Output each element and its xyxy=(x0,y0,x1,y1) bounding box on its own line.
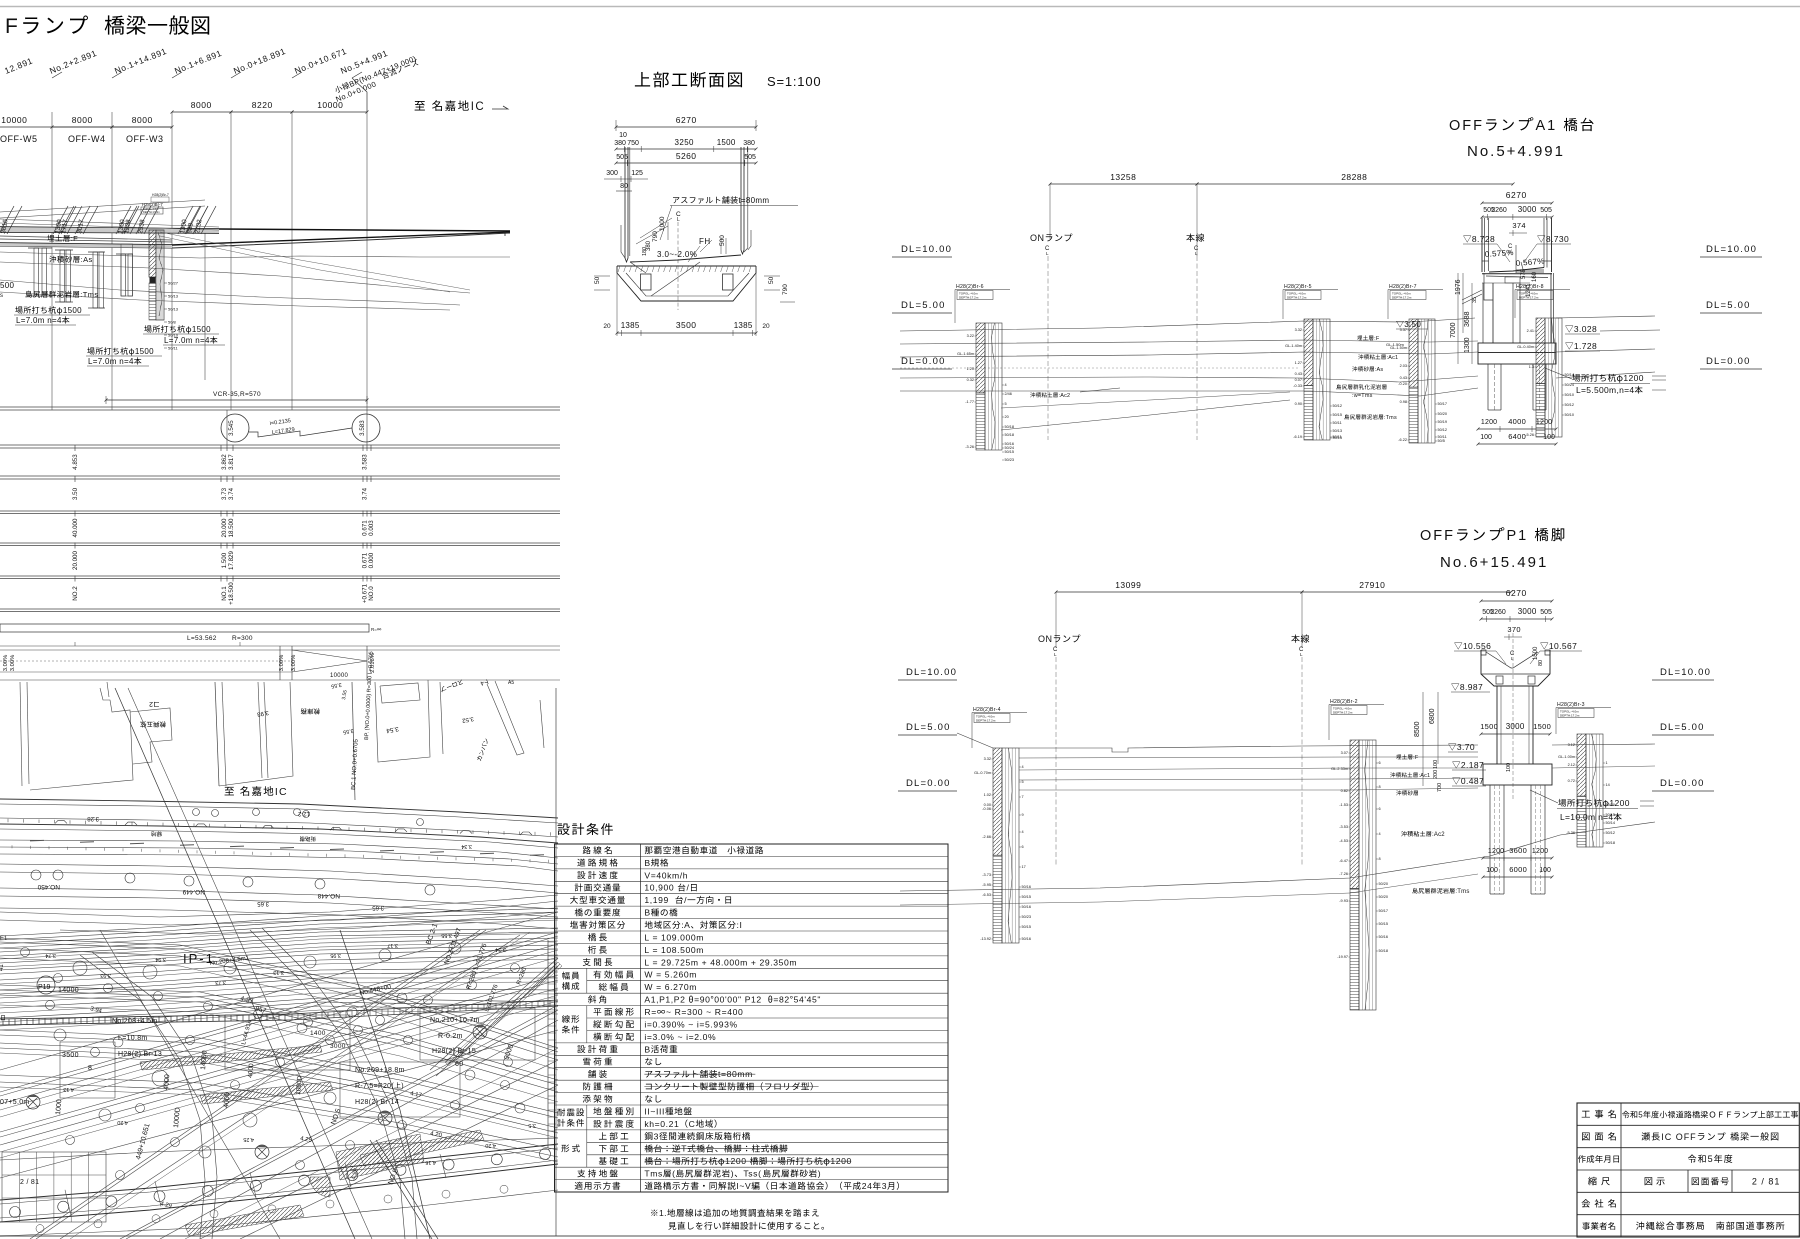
profile elevation circles xyxy=(221,414,249,442)
svg-text:50/15: 50/15 xyxy=(1022,895,1032,899)
svg-text:No.6+15.491: No.6+15.491 xyxy=(1440,554,1548,571)
svg-text:3000: 3000 xyxy=(1506,722,1525,731)
design table group labels xyxy=(562,972,579,980)
svg-text:125: 125 xyxy=(631,170,643,177)
svg-text:50/16: 50/16 xyxy=(1022,937,1032,941)
svg-text:-6.19: -6.19 xyxy=(1293,435,1302,439)
svg-text:50/13: 50/13 xyxy=(168,294,179,299)
svg-text:50/15: 50/15 xyxy=(1022,925,1032,929)
A1 extra strata lines xyxy=(900,340,1478,344)
svg-text:kh=0.21: kh=0.21 xyxy=(644,1119,679,1129)
cross-section web boxes xyxy=(641,274,652,290)
svg-text:1500: 1500 xyxy=(63,306,82,315)
svg-text:200: 200 xyxy=(1433,770,1439,779)
svg-text:370: 370 xyxy=(1507,625,1520,634)
svg-text:20.000: 20.000 xyxy=(72,551,79,570)
elevation soil label fill layer xyxy=(47,235,69,242)
svg-text:2.03: 2.03 xyxy=(1400,364,1407,368)
superelevation band xyxy=(0,645,560,647)
svg-text:DL=0.00: DL=0.00 xyxy=(1660,778,1705,789)
svg-text:80: 80 xyxy=(1538,660,1544,666)
svg-text:3.862: 3.862 xyxy=(221,454,228,470)
design table group sub-divider xyxy=(586,968,588,993)
svg-text:3500: 3500 xyxy=(676,320,697,330)
P1 cap beam xyxy=(1481,650,1486,655)
svg-text:12-2: 12-2 xyxy=(297,810,310,816)
plan circles row 2 xyxy=(31,870,41,880)
svg-text:L = 109.000m: L = 109.000m xyxy=(644,932,704,942)
svg-text:07+5.0m: 07+5.0m xyxy=(0,1099,30,1106)
svg-text:3000: 3000 xyxy=(330,1043,346,1050)
elevation ground lines xyxy=(0,252,510,258)
svg-text:50/20: 50/20 xyxy=(1379,895,1389,899)
svg-text:Tss(: Tss( xyxy=(743,1169,761,1179)
svg-text:50/15: 50/15 xyxy=(1606,813,1616,817)
P1 ground lines xyxy=(957,733,993,748)
svg-text:3.0~-2.0%: 3.0~-2.0% xyxy=(657,250,697,259)
svg-text:Tms: Tms xyxy=(644,1169,663,1179)
design conditions title xyxy=(557,823,612,835)
svg-text:3.817: 3.817 xyxy=(228,454,235,470)
svg-text:3: 3 xyxy=(882,1181,887,1191)
svg-text:10000: 10000 xyxy=(317,100,343,110)
svg-text:-1.53: -1.53 xyxy=(1339,803,1348,807)
svg-text:50/14: 50/14 xyxy=(1565,373,1575,377)
svg-text:50/12: 50/12 xyxy=(1606,831,1616,835)
svg-text:8000: 8000 xyxy=(191,100,212,110)
elevation station labels slanted xyxy=(3,55,34,75)
cross-section diagonal stiffeners xyxy=(651,262,700,296)
svg-text:i=3.0% ~ i=2.0%: i=3.0% ~ i=2.0% xyxy=(644,1032,716,1042)
svg-text:6400: 6400 xyxy=(1508,432,1526,441)
svg-text:A1: A1 xyxy=(1536,118,1558,134)
svg-text:50/17: 50/17 xyxy=(1379,909,1389,913)
elevation station grid lines xyxy=(51,112,53,410)
svg-text:4.20: 4.20 xyxy=(485,1142,496,1148)
svg-text:IC OFF: IC OFF xyxy=(1661,1132,1697,1142)
borehole H28(2)Br-4 sounding curve xyxy=(1008,748,1012,943)
svg-text:H28(2)Br-6: H28(2)Br-6 xyxy=(956,284,984,290)
svg-text:4.20: 4.20 xyxy=(117,1119,128,1125)
elevation dim row right 8000 8220 10000 xyxy=(172,111,231,113)
svg-text:4.853: 4.853 xyxy=(72,454,79,470)
svg-text:505: 505 xyxy=(616,154,628,161)
svg-text:160: 160 xyxy=(1532,271,1538,282)
svg-text:20: 20 xyxy=(762,323,770,330)
P1 ground level marks xyxy=(1448,744,1456,751)
svg-text:P1: P1 xyxy=(1507,528,1529,544)
svg-text:GL-0.70m: GL-0.70m xyxy=(974,771,991,775)
svg-text:DL=10.00: DL=10.00 xyxy=(1706,244,1757,255)
svg-text:575: 575 xyxy=(1521,268,1527,279)
P1 level marks top xyxy=(1454,643,1462,650)
svg-text:2: 2 xyxy=(149,700,153,707)
svg-text:1500: 1500 xyxy=(1533,722,1551,731)
svg-text:-3.53: -3.53 xyxy=(1339,825,1348,829)
svg-text:3.00%: 3.00% xyxy=(3,655,9,671)
svg-text:II~III: II~III xyxy=(644,1106,665,1116)
svg-text::Ac2: :Ac2 xyxy=(1432,832,1445,838)
svg-text:1200: 1200 xyxy=(1623,373,1644,383)
svg-text:IC: IC xyxy=(275,786,288,798)
svg-text::F: :F xyxy=(1374,336,1380,342)
svg-text:8.730: 8.730 xyxy=(1546,234,1569,244)
svg-text:-0.06: -0.06 xyxy=(982,807,991,811)
plan road band guardrail bumps xyxy=(55,820,67,823)
svg-text:1.728: 1.728 xyxy=(1574,341,1597,351)
svg-text:1500: 1500 xyxy=(135,347,154,356)
svg-text:50/15: 50/15 xyxy=(1005,450,1015,454)
svg-text:7: 7 xyxy=(1022,795,1024,799)
svg-text:2.12: 2.12 xyxy=(1568,763,1575,767)
borehole H28(2)Br-4 column xyxy=(993,748,1002,855)
plan extra short connector curves xyxy=(80,955,205,1239)
svg-text:2.187: 2.187 xyxy=(1461,760,1484,770)
svg-text:DEPTH:17.2m: DEPTH:17.2m xyxy=(1392,296,1412,300)
elevation abutment borehole hatched column xyxy=(149,230,156,277)
P1 main-line centerline xyxy=(1291,634,1309,642)
svg-text:3.545: 3.545 xyxy=(228,420,235,436)
svg-text:1.20: 1.20 xyxy=(967,367,974,371)
plan bottom band cross streets xyxy=(65,1190,71,1216)
svg-text::Ac1: :Ac1 xyxy=(1419,773,1431,779)
svg-text:17.829: 17.829 xyxy=(228,551,235,570)
A1 bearing and abutment xyxy=(1486,276,1548,278)
svg-text:1000: 1000 xyxy=(55,1099,63,1115)
svg-text:GL-1.40m: GL-1.40m xyxy=(1285,344,1302,348)
svg-text::Tms: :Tms xyxy=(80,290,98,299)
plan railroad hatched band xyxy=(0,1014,290,1019)
svg-text:8220: 8220 xyxy=(252,100,273,110)
svg-text:OFF-W4: OFF-W4 xyxy=(68,134,106,144)
P1 extra strata lines xyxy=(1019,757,1478,758)
svg-text:8: 8 xyxy=(88,1065,92,1072)
svg-text:5260: 5260 xyxy=(676,151,697,161)
svg-text:50/24: 50/24 xyxy=(1005,446,1015,450)
cross-section right barrier wall xyxy=(741,147,744,254)
svg-text:10.567: 10.567 xyxy=(1549,641,1577,651)
svg-text:20.000: 20.000 xyxy=(221,518,228,537)
svg-text:8: 8 xyxy=(1379,857,1381,861)
svg-text:-9.93: -9.93 xyxy=(1339,899,1348,903)
svg-text:1200: 1200 xyxy=(1532,848,1548,855)
svg-text:NO.1: NO.1 xyxy=(221,586,228,601)
svg-text:W = 5.260m: W = 5.260m xyxy=(644,970,697,980)
svg-text:H28(2)Br-8: H28(2)Br-8 xyxy=(1516,284,1544,290)
svg-text:6: 6 xyxy=(1379,761,1381,765)
svg-text:-0.20: -0.20 xyxy=(1398,382,1407,386)
svg-text:50/10: 50/10 xyxy=(1565,413,1575,417)
svg-text:6270: 6270 xyxy=(676,115,697,125)
svg-text:6: 6 xyxy=(1022,845,1024,849)
svg-text:DEPTH:17.2m: DEPTH:17.2m xyxy=(1519,296,1539,300)
svg-text:1500: 1500 xyxy=(717,138,736,147)
cross-section left barrier wall xyxy=(625,147,628,262)
borehole H28(2)Br-3 sounding curve xyxy=(1592,734,1597,847)
P1 rotated dims xyxy=(1414,721,1421,737)
svg-text:40.000: 40.000 xyxy=(72,518,79,537)
svg-text:DEPTH:17.0m: DEPTH:17.0m xyxy=(143,210,160,214)
profile rotated values xyxy=(72,454,79,470)
svg-text:00'00" P12: 00'00" P12 xyxy=(714,995,762,1005)
svg-text:3.028: 3.028 xyxy=(1574,324,1597,334)
svg-text:3250: 3250 xyxy=(675,138,695,147)
svg-text:6000: 6000 xyxy=(1509,865,1527,874)
svg-text:27910: 27910 xyxy=(1359,580,1385,590)
title block labels xyxy=(1582,1110,1616,1119)
svg-text:3.93: 3.93 xyxy=(100,972,111,978)
svg-text:C: C xyxy=(689,1119,696,1129)
svg-text:6800: 6800 xyxy=(1429,708,1436,724)
svg-text:DL=0.00: DL=0.00 xyxy=(906,778,951,789)
svg-text:2.41: 2.41 xyxy=(1527,329,1534,333)
svg-text:+18.500: +18.500 xyxy=(228,582,235,605)
plan hatched wedges xyxy=(140,1045,322,1070)
svg-text:3.94: 3.94 xyxy=(155,956,166,962)
svg-text:3.65: 3.65 xyxy=(257,900,269,906)
svg-text:R=: R= xyxy=(371,627,377,632)
svg-text:-19.97: -19.97 xyxy=(1337,955,1348,959)
svg-text:4.13: 4.13 xyxy=(63,1086,74,1092)
svg-text:-6.53: -6.53 xyxy=(982,893,991,897)
svg-text:-3.26: -3.26 xyxy=(965,445,974,449)
svg-text:505: 505 xyxy=(744,154,756,161)
elevation soil label mudstone xyxy=(26,291,79,298)
svg-text:3.74: 3.74 xyxy=(228,487,235,500)
svg-text:DL=5.00: DL=5.00 xyxy=(901,300,946,311)
svg-text:/: / xyxy=(684,895,687,905)
svg-text:~ R=300 ~ R=400: ~ R=300 ~ R=400 xyxy=(666,1007,743,1017)
plan interchange ramp diagonals up-right xyxy=(0,932,558,1092)
svg-text:-5.26: -5.26 xyxy=(1525,433,1534,437)
svg-text:NO.450: NO.450 xyxy=(37,883,60,890)
svg-text:-5.36: -5.36 xyxy=(1566,831,1575,835)
svg-text:5: 5 xyxy=(1005,402,1007,406)
svg-text:-1.77: -1.77 xyxy=(965,400,974,404)
svg-text:DL=5.00: DL=5.00 xyxy=(1660,722,1705,733)
svg-text:i=0.390% ~ i=5.993%: i=0.390% ~ i=5.993% xyxy=(644,1019,737,1029)
svg-text:3.28: 3.28 xyxy=(87,815,99,821)
svg-text:8000: 8000 xyxy=(72,115,93,125)
svg-text:P19: P19 xyxy=(38,984,51,991)
svg-text:1: 1 xyxy=(1606,761,1608,765)
svg-text:1400: 1400 xyxy=(310,1030,326,1037)
svg-text:505: 505 xyxy=(1540,609,1552,616)
A1 ground level marks xyxy=(1396,321,1404,328)
svg-text:): ) xyxy=(401,1083,404,1090)
svg-text:DEPTH:17.2m: DEPTH:17.2m xyxy=(959,296,979,300)
svg-text:3.34: 3.34 xyxy=(461,843,472,849)
svg-text:L=7.0m n=4: L=7.0m n=4 xyxy=(16,316,62,325)
svg-text:8.987: 8.987 xyxy=(1460,682,1483,692)
svg-text::Ac1: :Ac1 xyxy=(1387,355,1399,361)
elevation pile label 3 xyxy=(87,347,134,355)
svg-text:0.72: 0.72 xyxy=(1568,779,1575,783)
svg-text:t=80mm: t=80mm xyxy=(738,196,769,205)
svg-text:): ) xyxy=(818,1169,821,1179)
svg-text:R-7.5=P20(: R-7.5=P20( xyxy=(355,1083,394,1090)
svg-text:VCR-35,R=570: VCR-35,R=570 xyxy=(213,391,261,398)
svg-text:505: 505 xyxy=(1540,207,1552,214)
svg-text:700: 700 xyxy=(1437,783,1443,792)
svg-text:374: 374 xyxy=(1512,221,1525,230)
svg-text:): ) xyxy=(731,1169,734,1179)
svg-text:80: 80 xyxy=(620,183,628,190)
svg-text:8000: 8000 xyxy=(132,115,153,125)
svg-text:-6.47: -6.47 xyxy=(1339,859,1348,863)
svg-text:18.500: 18.500 xyxy=(228,518,235,537)
plan to-Nakachi label xyxy=(225,787,234,796)
svg-text:2260: 2260 xyxy=(1491,207,1507,214)
svg-text:4: 4 xyxy=(1005,383,1007,387)
svg-text:1.02: 1.02 xyxy=(984,793,991,797)
svg-text:-6.22: -6.22 xyxy=(1398,438,1407,442)
svg-text:OFF: OFF xyxy=(1420,528,1455,544)
elevation pile group W3 xyxy=(93,252,98,308)
svg-text:A1,P1,P2: A1,P1,P2 xyxy=(644,995,685,1005)
svg-text:10000: 10000 xyxy=(330,673,349,679)
svg-text:GL-0.40m: GL-0.40m xyxy=(1517,345,1534,349)
svg-text:3000: 3000 xyxy=(1518,205,1537,214)
svg-text:No.209+18.8m: No.209+18.8m xyxy=(355,1067,405,1074)
svg-text:1.3: 1.3 xyxy=(1529,365,1534,369)
svg-text:OFF-W5: OFF-W5 xyxy=(0,134,38,144)
svg-text:DEPTH:17.2m: DEPTH:17.2m xyxy=(976,719,996,723)
svg-text:1500: 1500 xyxy=(192,325,211,334)
svg-text::A: :A xyxy=(681,920,690,930)
svg-text:3.13: 3.13 xyxy=(273,969,284,975)
svg-text:10000: 10000 xyxy=(1,115,27,125)
design table grid xyxy=(555,844,949,1192)
svg-text:8: 8 xyxy=(1379,785,1381,789)
svg-text:L = 29.725m + 48.000m + 29.350: L = 29.725m + 48.000m + 29.350m xyxy=(644,957,797,967)
svg-text:4000: 4000 xyxy=(1508,417,1526,426)
svg-text:790: 790 xyxy=(782,284,789,295)
svg-text:300: 300 xyxy=(606,170,618,177)
svg-text:14: 14 xyxy=(1606,783,1610,787)
svg-text:500: 500 xyxy=(719,235,726,246)
svg-text:50/5: 50/5 xyxy=(1438,439,1445,443)
svg-text:7000: 7000 xyxy=(1450,322,1457,338)
svg-text:No.210+10.7m: No.210+10.7m xyxy=(430,1017,480,1024)
A1 piles xyxy=(1487,364,1489,410)
svg-text:W = 6.270m: W = 6.270m xyxy=(644,982,697,992)
svg-text:B: B xyxy=(644,858,650,868)
svg-text:0.43: 0.43 xyxy=(1400,376,1407,380)
svg-text:3.12: 3.12 xyxy=(1568,743,1575,747)
P1 column xyxy=(1496,686,1498,764)
svg-text:DL=0.00: DL=0.00 xyxy=(1706,356,1751,367)
plan scattered circles mid xyxy=(73,961,87,975)
borehole H28(2)Br-8 column xyxy=(1536,318,1545,384)
elevation dim row left 10000 8000 8000 xyxy=(0,126,172,128)
svg-text:L=53.562: L=53.562 xyxy=(187,635,217,642)
svg-text:50/20: 50/20 xyxy=(1438,412,1448,416)
svg-text:L=10.8m: L=10.8m xyxy=(118,1035,148,1042)
svg-text:3.00%: 3.00% xyxy=(291,655,297,671)
svg-text:3500: 3500 xyxy=(62,1052,79,1059)
svg-text:-2.66: -2.66 xyxy=(982,835,991,839)
svg-text:8500: 8500 xyxy=(1414,721,1421,737)
svg-text:6270: 6270 xyxy=(1506,190,1527,200)
svg-text:790: 790 xyxy=(652,231,659,242)
svg-text:DL=5.00: DL=5.00 xyxy=(906,722,951,733)
svg-text:3.55: 3.55 xyxy=(441,932,452,938)
plan extra circles xyxy=(21,948,30,957)
svg-text::F: :F xyxy=(1413,755,1419,761)
svg-text::As: :As xyxy=(81,255,93,264)
borehole H28(2)Br-6 column xyxy=(976,323,985,393)
svg-text:5: 5 xyxy=(1708,1154,1714,1164)
svg-text:750: 750 xyxy=(627,140,639,147)
svg-text:6270: 6270 xyxy=(1506,588,1527,598)
svg-text:9: 9 xyxy=(1022,813,1024,817)
svg-text:50/27: 50/27 xyxy=(168,281,179,286)
svg-text:NO.448: NO.448 xyxy=(317,892,340,899)
elevation borehole tick labels xyxy=(164,282,167,284)
svg-text:50/13: 50/13 xyxy=(168,307,179,312)
svg-text:100: 100 xyxy=(1480,434,1492,441)
svg-text:1.500: 1.500 xyxy=(221,552,228,568)
cross-section slab hatch ticks xyxy=(618,266,620,272)
svg-text:NO.2: NO.2 xyxy=(72,586,79,601)
A1 bearing stem lines xyxy=(1512,283,1514,343)
svg-text:-5.95: -5.95 xyxy=(982,883,991,887)
svg-text:NO.449: NO.449 xyxy=(182,888,205,895)
svg-text:100: 100 xyxy=(1539,867,1551,874)
borehole H28(2)Br-2 sounding curve xyxy=(1365,740,1370,1010)
svg-text:3.17: 3.17 xyxy=(387,942,398,948)
svg-text:R=: R= xyxy=(644,1007,656,1017)
svg-text:6: 6 xyxy=(1379,807,1381,811)
svg-text:20: 20 xyxy=(1005,415,1009,419)
svg-text:L=7.0m n=4: L=7.0m n=4 xyxy=(88,357,134,366)
borehole H28(2)Br-8 sounding curve xyxy=(1551,318,1555,437)
svg-text:50/8: 50/8 xyxy=(168,320,177,325)
svg-text:50/12: 50/12 xyxy=(1565,403,1575,407)
svg-text:IC: IC xyxy=(471,101,486,113)
svg-text:180: 180 xyxy=(642,247,648,256)
svg-text:50/16: 50/16 xyxy=(1379,935,1389,939)
svg-text:0.32: 0.32 xyxy=(967,378,974,382)
P1 cap bearing boxes xyxy=(1496,676,1503,684)
svg-text:OFF-W3: OFF-W3 xyxy=(126,134,164,144)
svg-text:R=300: R=300 xyxy=(232,635,253,642)
svg-text:No.208+4.5m: No.208+4.5m xyxy=(112,1018,158,1025)
plan bottom left box grid xyxy=(2,1152,106,1222)
svg-text:B: B xyxy=(644,1044,650,1054)
svg-text:GL-1.00m: GL-1.00m xyxy=(1558,755,1575,759)
svg-text:1385: 1385 xyxy=(621,321,640,330)
plan bottom double diagonal xyxy=(370,1140,432,1239)
plan right boundary fence xyxy=(555,688,557,1236)
svg-text:100: 100 xyxy=(1486,867,1498,874)
svg-text:3.70: 3.70 xyxy=(1457,742,1475,752)
borehole H28(2)Br-5 sounding curve xyxy=(1319,319,1323,440)
svg-text:=90: =90 xyxy=(694,995,710,1005)
svg-text:3.34: 3.34 xyxy=(495,946,506,952)
svg-text:3.00%: 3.00% xyxy=(10,655,16,671)
svg-text:FH: FH xyxy=(699,237,711,246)
svg-text:-7.26: -7.26 xyxy=(1339,872,1348,876)
svg-text:17: 17 xyxy=(1022,865,1026,869)
svg-text:4: 4 xyxy=(1022,830,1024,834)
svg-text:GL-2.33m: GL-2.33m xyxy=(1331,767,1348,771)
elevation pile label 1 xyxy=(15,306,62,314)
svg-text:50/15: 50/15 xyxy=(1379,922,1389,926)
plan band 1 labels xyxy=(87,815,99,821)
borehole H28(2)Br-6 sounding curve xyxy=(991,323,995,450)
